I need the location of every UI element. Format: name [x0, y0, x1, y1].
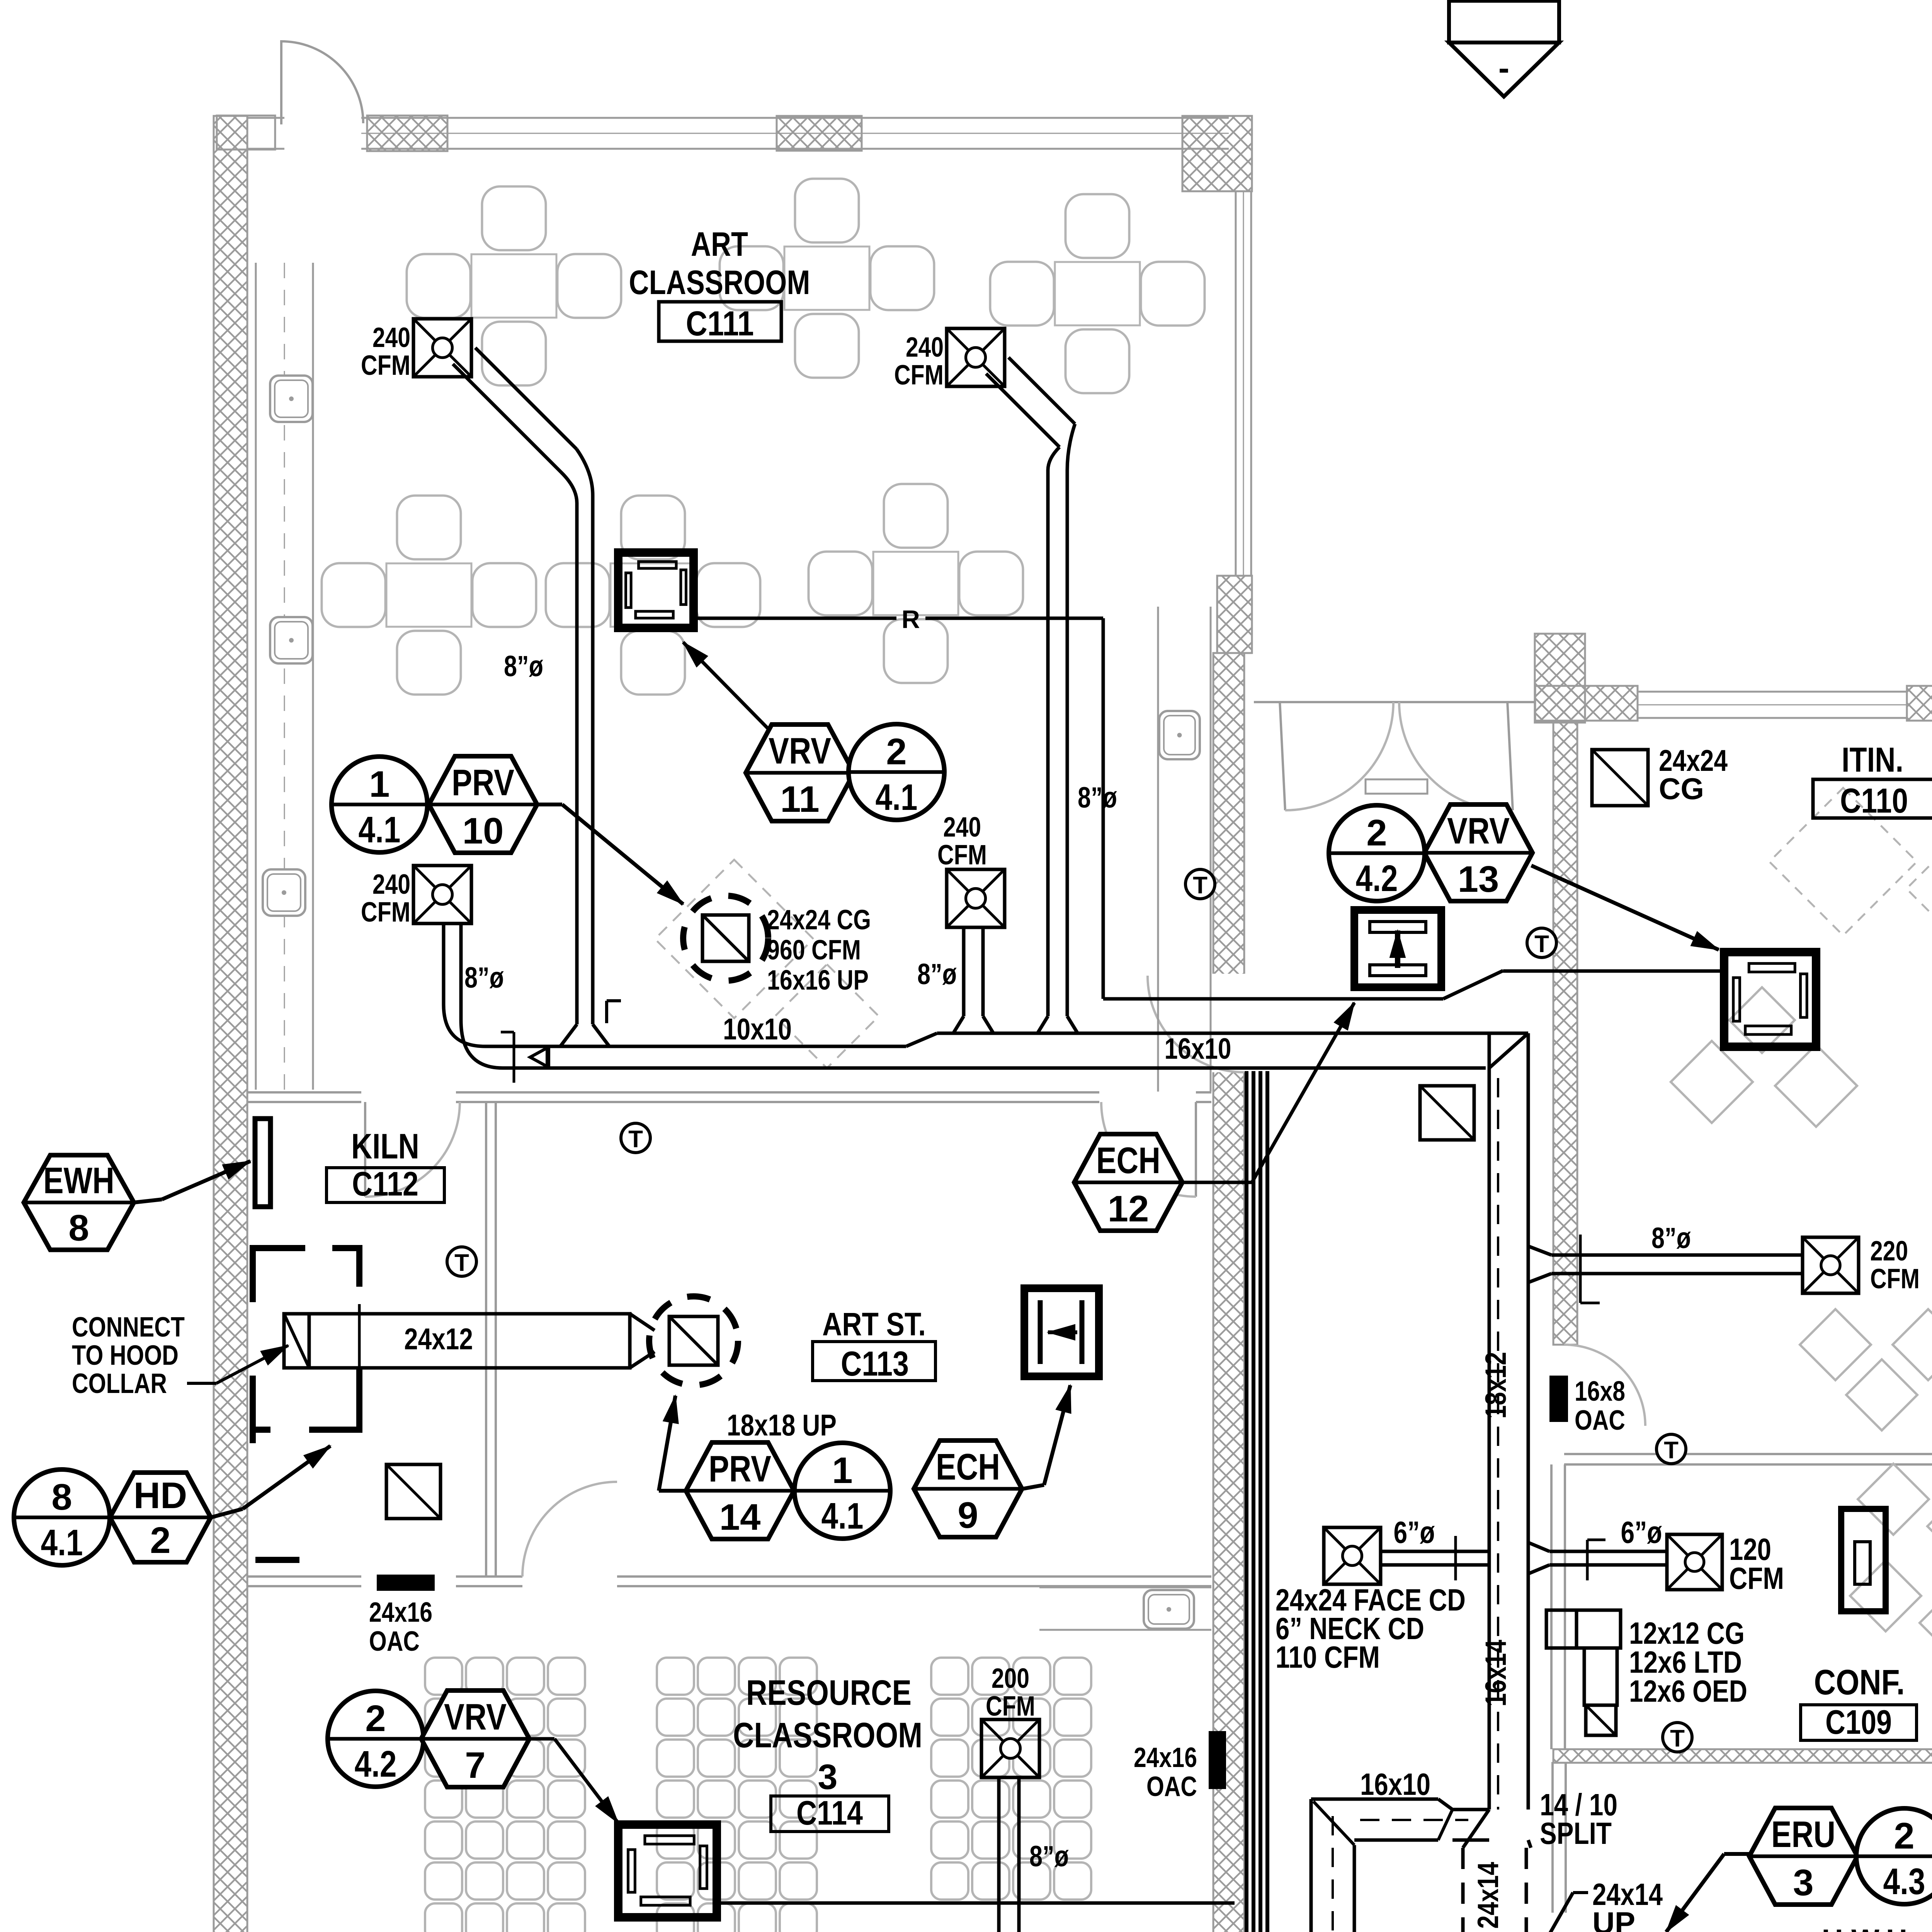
svg-text:CONNECT: CONNECT	[72, 1312, 185, 1343]
svg-text:VRV: VRV	[444, 1696, 507, 1738]
svg-text:24x12: 24x12	[404, 1322, 473, 1356]
kiln dashed equipment	[655, 860, 813, 1018]
wall kiln/artst divider	[485, 1102, 487, 1577]
counter artst bottom	[1039, 1587, 1211, 1588]
door kiln	[364, 1102, 366, 1197]
svg-text:3: 3	[1793, 1862, 1813, 1903]
diffuser 240cfm D1	[413, 319, 471, 377]
counter right of art classroom	[1157, 607, 1159, 1092]
svg-text:4.2: 4.2	[355, 1743, 397, 1785]
svg-text:C113: C113	[841, 1345, 909, 1383]
svg-text:CFM: CFM	[937, 840, 987, 871]
svg-text:8: 8	[68, 1207, 89, 1249]
svg-text:220: 220	[1870, 1236, 1908, 1267]
svg-text:T: T	[628, 1126, 643, 1153]
svg-text:ART: ART	[691, 225, 748, 263]
damper tick	[513, 1032, 515, 1083]
svg-text:240: 240	[372, 869, 410, 900]
conf 6.о left branch	[1324, 1527, 1381, 1584]
oac 24x16 corridor	[1209, 1731, 1226, 1789]
duct D3 branch	[442, 923, 446, 1005]
itin left wall	[1553, 721, 1577, 1345]
itin bottom wall	[1564, 1453, 1932, 1455]
duct 18x12 vertical	[1488, 1068, 1491, 1217]
refrigerant line R art	[694, 617, 896, 620]
svg-text:10x10: 10x10	[723, 1012, 792, 1046]
conf 6.о right branch	[1528, 1543, 1549, 1551]
svg-text:CLASSROOM: CLASSROOM	[629, 263, 810, 301]
svg-text:OAC: OAC	[1146, 1771, 1197, 1802]
conf chairs	[1858, 1464, 1929, 1535]
duct D1 elbow to main	[560, 1024, 577, 1046]
oac 16x8 itin	[1549, 1376, 1568, 1422]
diffuser 220cfm itin	[1803, 1237, 1859, 1293]
main duct 10x10	[495, 1045, 906, 1048]
cassette V3 resource	[618, 1825, 717, 1917]
resource desks	[425, 1658, 462, 1695]
svg-text:2: 2	[886, 731, 906, 772]
itin top wall	[1535, 686, 1638, 721]
diffuser 240cfm D2	[947, 328, 1005, 386]
supply up unit V4	[1354, 910, 1441, 987]
wall right window of art classroom	[1235, 191, 1237, 576]
svg-text:8”ø: 8”ø	[917, 958, 957, 991]
svg-text:16x10: 16x10	[1360, 1767, 1430, 1801]
svg-text:2: 2	[1894, 1815, 1914, 1857]
svg-text:4.3: 4.3	[1883, 1861, 1925, 1902]
tag PRV 10	[429, 756, 537, 853]
duct 16x10 elbow chase	[1311, 1798, 1438, 1801]
svg-text:CONF.: CONF.	[1814, 1663, 1905, 1702]
door itin	[1564, 1345, 1645, 1426]
duct 16x14 vertical	[1488, 1217, 1491, 1810]
svg-text:24x16: 24x16	[1134, 1742, 1197, 1773]
svg-text:-: -	[1498, 50, 1509, 87]
svg-text:6”ø: 6”ø	[1394, 1515, 1435, 1549]
svg-text:4.1: 4.1	[821, 1495, 864, 1537]
heater bar	[255, 1119, 270, 1207]
svg-text:960 CFM: 960 CFM	[767, 935, 861, 966]
tag VRV 7	[328, 1691, 423, 1787]
svg-text:18x18 UP: 18x18 UP	[727, 1408, 837, 1442]
svg-text:PRV: PRV	[709, 1448, 771, 1490]
counter left with sinks	[255, 263, 257, 1090]
door top-left	[280, 40, 282, 124]
svg-text:CG: CG	[1659, 772, 1704, 806]
thermostats	[621, 1123, 650, 1153]
svg-text:1: 1	[832, 1450, 852, 1491]
svg-text:SPLIT: SPLIT	[1540, 1816, 1612, 1850]
svg-text:1: 1	[369, 764, 389, 805]
svg-text:6”ø: 6”ø	[1621, 1515, 1662, 1549]
svg-text:4.1: 4.1	[359, 809, 401, 850]
svg-text:ECH: ECH	[936, 1446, 1000, 1488]
svg-text:8”ø: 8”ø	[1651, 1222, 1691, 1255]
svg-text:12x6 OED: 12x6 OED	[1629, 1674, 1747, 1708]
refrigerant bundle vertical	[1245, 1071, 1248, 1932]
svg-text:VRV: VRV	[769, 730, 831, 772]
svg-text:7: 7	[465, 1745, 485, 1786]
svg-text:ECH: ECH	[1096, 1140, 1160, 1181]
svg-text:18x12: 18x12	[1480, 1352, 1512, 1419]
refrigerant V3	[718, 1901, 1235, 1905]
tag VRV 11	[746, 724, 854, 821]
conf L duct	[1546, 1610, 1621, 1648]
svg-text:UP: UP	[1592, 1906, 1635, 1932]
grille CG3 kiln	[386, 1464, 440, 1519]
svg-text:8”ø: 8”ø	[1078, 781, 1117, 814]
svg-text:R: R	[901, 605, 920, 633]
svg-text:4.1: 4.1	[41, 1522, 83, 1563]
vestibule right wall	[1535, 634, 1585, 723]
svg-text:2: 2	[1366, 812, 1387, 854]
svg-text:KILN: KILN	[351, 1127, 419, 1166]
svg-text:12: 12	[1108, 1188, 1149, 1230]
svg-text:T: T	[1534, 931, 1549, 957]
svg-text:COLLAR: COLLAR	[72, 1368, 167, 1399]
main duct 16x10	[937, 1032, 1486, 1035]
svg-text:240: 240	[906, 332, 944, 363]
svg-text:C114: C114	[796, 1794, 863, 1832]
dashed grille DG2	[649, 1296, 738, 1385]
art classroom tables	[471, 254, 556, 318]
kiln duct 24x12	[284, 1314, 630, 1368]
svg-text:10: 10	[463, 810, 504, 852]
svg-text:RESOURCE: RESOURCE	[746, 1673, 912, 1713]
svg-text:CFM: CFM	[361, 897, 410, 928]
svg-text:4.2: 4.2	[1356, 858, 1398, 899]
svg-text:C111: C111	[686, 304, 754, 343]
fire damper FD1	[1024, 1288, 1099, 1376]
diffuser 200cfm top resource	[981, 1719, 1039, 1777]
vestibule double doors	[1254, 701, 1536, 703]
door artst	[522, 1482, 617, 1577]
svg-text:TO HOOD: TO HOOD	[72, 1340, 179, 1371]
svg-text:OAC: OAC	[1575, 1405, 1625, 1436]
wall top of art classroom	[247, 117, 284, 119]
svg-text:11: 11	[780, 779, 819, 820]
svg-text:24x16: 24x16	[369, 1597, 432, 1628]
tag HD 2	[110, 1473, 211, 1562]
svg-text:200: 200	[992, 1663, 1029, 1694]
svg-text:C112: C112	[352, 1165, 418, 1203]
duct taper	[906, 1033, 937, 1046]
svg-text:16x8: 16x8	[1575, 1376, 1625, 1407]
tag PRV 14	[686, 1442, 794, 1539]
svg-text:PRV: PRV	[452, 762, 514, 803]
section marker	[1449, 1, 1559, 43]
tag VRV 13	[1329, 805, 1425, 901]
diffuser 240cfm D3	[413, 866, 471, 923]
svg-text:8”ø: 8”ø	[464, 961, 504, 994]
svg-text:8”ø: 8”ø	[504, 650, 543, 683]
svg-text:H.W.H.: H.W.H.	[1822, 1922, 1916, 1932]
cassette V2 itin	[1724, 952, 1816, 1047]
duct 24x14	[1461, 1848, 1465, 1932]
svg-text:T: T	[1670, 1725, 1685, 1752]
svg-text:14: 14	[719, 1497, 761, 1538]
conf panel	[1841, 1509, 1886, 1611]
svg-text:CFM: CFM	[1729, 1561, 1784, 1595]
door corridor upper	[1148, 976, 1244, 1072]
svg-text:VRV: VRV	[1447, 810, 1510, 852]
transition 16x14 to 24x14	[1463, 1810, 1489, 1848]
duct corner to 18x12	[1486, 1032, 1528, 1035]
wall artst bottom	[247, 1575, 361, 1578]
svg-text:110 CFM: 110 CFM	[1276, 1640, 1380, 1674]
grille CG1 itin	[1592, 750, 1648, 806]
conf left wall	[1550, 1464, 1553, 1749]
duct D2 branch	[986, 374, 1060, 447]
svg-text:2: 2	[365, 1698, 386, 1739]
door artst-classroom	[1195, 1102, 1197, 1197]
cassette V1 art classroom	[618, 553, 694, 628]
tag EWH 8	[24, 1155, 134, 1250]
svg-text:24x24 CG: 24x24 CG	[767, 905, 871, 935]
svg-text:240: 240	[943, 812, 981, 843]
svg-text:24x14: 24x14	[1472, 1862, 1505, 1929]
tag ERU 3	[1749, 1808, 1857, 1905]
tag ECH 12	[1074, 1134, 1182, 1231]
svg-text:C109: C109	[1825, 1703, 1892, 1741]
svg-text:16x10: 16x10	[1165, 1032, 1231, 1065]
svg-text:4.1: 4.1	[876, 777, 918, 818]
svg-text:CLASSROOM: CLASSROOM	[733, 1716, 922, 1755]
arrow PRV14	[659, 1489, 686, 1493]
diffuser 240cfm D4	[947, 869, 1005, 927]
svg-text:CFM: CFM	[1870, 1264, 1920, 1294]
svg-text:2: 2	[150, 1520, 170, 1561]
svg-text:EWH: EWH	[43, 1160, 114, 1201]
svg-text:16x16 UP: 16x16 UP	[767, 965, 869, 996]
svg-text:ERU: ERU	[1771, 1814, 1835, 1855]
itin chairs	[1671, 1041, 1753, 1123]
svg-text:9: 9	[957, 1495, 978, 1536]
svg-text:T: T	[1664, 1437, 1679, 1464]
itin 8.о duct	[1528, 1246, 1551, 1255]
arrow PRV10 to grille	[537, 803, 562, 806]
hwh left wall	[1551, 1762, 1554, 1913]
wall art classroom bottom	[247, 1091, 361, 1094]
damper itin	[1579, 1235, 1582, 1303]
svg-text:3: 3	[818, 1757, 837, 1797]
svg-text:16x14: 16x14	[1480, 1640, 1512, 1707]
svg-text:8”ø: 8”ø	[1029, 1840, 1069, 1873]
svg-text:T: T	[1193, 872, 1207, 899]
svg-text:CFM: CFM	[986, 1691, 1035, 1722]
wall corridor west band	[1213, 653, 1244, 1932]
tag ECH 9	[914, 1440, 1022, 1537]
dashed grille DG1	[683, 896, 768, 981]
duct 8.о vertical resource	[997, 1777, 1001, 1932]
svg-text:13: 13	[1458, 859, 1499, 900]
svg-text:T: T	[454, 1250, 469, 1276]
svg-text:CFM: CFM	[361, 350, 410, 381]
svg-text:240: 240	[372, 322, 410, 353]
svg-text:ITIN.: ITIN.	[1842, 741, 1903, 779]
grille CG2 corridor	[1420, 1086, 1474, 1140]
conf bottom wall	[1553, 1749, 1932, 1763]
duct D1 branch	[453, 364, 561, 472]
svg-text:HD: HD	[134, 1475, 187, 1516]
wall left exterior	[214, 116, 247, 1932]
svg-text:8: 8	[51, 1476, 72, 1518]
svg-text:C110: C110	[1840, 782, 1908, 820]
kiln hood dashed	[253, 1248, 359, 1430]
svg-text:OAC: OAC	[369, 1626, 420, 1657]
oac 24x16 kiln	[377, 1575, 435, 1591]
svg-text:ART ST.: ART ST.	[822, 1306, 926, 1342]
svg-text:CFM: CFM	[894, 360, 944, 391]
